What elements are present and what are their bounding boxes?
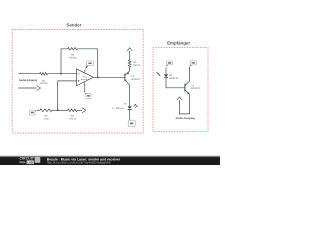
svg-text:1 kΩ: 1 kΩ [43, 118, 48, 121]
svg-text:100 kΩ: 100 kΩ [40, 82, 48, 85]
svg-text:LAB: LAB [27, 161, 33, 164]
svg-text:BPW 34: BPW 34 [169, 77, 179, 80]
svg-text:100 kΩ: 100 kΩ [69, 56, 77, 59]
svg-text:Empfänger: Empfänger [167, 41, 190, 46]
svg-text:λ = 650 nm: λ = 650 nm [112, 107, 124, 110]
svg-text:470 Ω: 470 Ω [69, 118, 76, 121]
svg-text:Sender: Sender [67, 22, 82, 27]
svg-text:Audio-Ausgang: Audio-Ausgang [176, 117, 196, 120]
svg-text:CIRCUIT: CIRCUIT [20, 156, 35, 160]
svg-text:BC547C: BC547C [191, 87, 200, 90]
svg-text:http://circuitlab.com/circuit/: http://circuitlab.com/circuit/7xq4e85mw6… [47, 161, 111, 165]
svg-text:Audio-Eingang: Audio-Eingang [19, 79, 38, 82]
svg-text:op-amp: op-amp [81, 78, 89, 81]
svg-text:BC557C: BC557C [131, 78, 140, 81]
svg-text:560 Ω: 560 Ω [133, 64, 140, 67]
